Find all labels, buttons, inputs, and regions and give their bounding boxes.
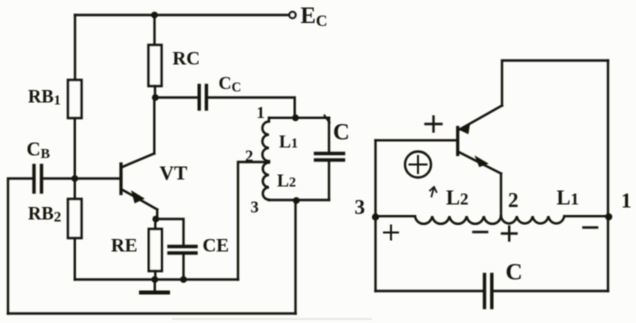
svg-text:L2: L2 bbox=[446, 186, 469, 210]
wire emitter node to CE top bbox=[156, 219, 184, 246]
source circled plus bbox=[405, 152, 431, 178]
svg-text:C: C bbox=[333, 120, 350, 145]
label RE bbox=[111, 236, 137, 257]
resistor RE bbox=[149, 229, 162, 271]
capacitor CE bbox=[169, 247, 196, 254]
wire emitter vertical bbox=[156, 210, 158, 220]
label 2 (right circuit) bbox=[508, 188, 519, 212]
resistor RB1 bbox=[68, 80, 82, 118]
label C (tank) tick mark bbox=[325, 116, 330, 123]
wire tank top bbox=[269, 117, 329, 119]
label EC bbox=[301, 3, 328, 30]
wire tank bottom bbox=[269, 199, 329, 201]
label RC bbox=[173, 49, 200, 70]
label 2 (tank mid tap) bbox=[245, 147, 253, 166]
wire top rail bbox=[75, 14, 290, 16]
svg-text:RE: RE bbox=[111, 236, 137, 257]
capacitor C (tank) bbox=[316, 118, 344, 200]
label + (below tap 2) bbox=[502, 227, 517, 241]
resistor RB2 bbox=[68, 199, 82, 238]
wire left side vertical (node 3) bbox=[374, 140, 376, 291]
inductor L2 (right circuit) bbox=[415, 216, 501, 224]
node 1 dot bbox=[605, 213, 612, 220]
node CE bottom junction bbox=[180, 276, 187, 283]
wire tap2 to ground rail corner bbox=[238, 162, 266, 280]
svg-text:2: 2 bbox=[508, 188, 519, 212]
wire collector node to CC bbox=[155, 96, 199, 98]
label L2 (right circuit) bbox=[446, 186, 469, 210]
wire CE bottom stub bbox=[182, 253, 184, 280]
svg-text:L1: L1 bbox=[557, 186, 580, 210]
node tank top junction bbox=[292, 114, 299, 121]
label VT bbox=[160, 163, 188, 185]
label C (tank) bbox=[333, 120, 350, 145]
node RE bottom junction bbox=[151, 276, 158, 283]
capacitor CB bbox=[34, 166, 42, 193]
label RB1 bbox=[28, 88, 61, 109]
wire base lead (right circuit) bbox=[376, 139, 457, 141]
node 3 dot bbox=[372, 213, 379, 220]
transistor (equivalent circuit) bbox=[458, 106, 502, 174]
svg-text:3: 3 bbox=[251, 198, 259, 217]
scan smudge artifact bbox=[172, 318, 372, 320]
wire CB left to outer loop bbox=[8, 179, 34, 314]
label + (base polarity) bbox=[426, 117, 442, 132]
svg-text:1: 1 bbox=[257, 103, 265, 122]
wire RC bottom stub bbox=[154, 86, 156, 97]
svg-text:RB1: RB1 bbox=[28, 88, 61, 109]
wire emitter node to RE bbox=[154, 219, 156, 229]
label 1 (right circuit) bbox=[621, 189, 632, 213]
wire outer bottom loop bbox=[8, 312, 296, 315]
svg-text:CC: CC bbox=[219, 73, 242, 95]
svg-text:3: 3 bbox=[355, 195, 366, 219]
wire tank bottom to outer loop bbox=[294, 200, 296, 314]
label 3 (tank bottom tap) bbox=[251, 198, 259, 217]
wire L1 to node 1 bbox=[564, 215, 608, 217]
node junction top (RC tap) bbox=[151, 12, 158, 19]
svg-text:C: C bbox=[506, 260, 523, 286]
label RB2 bbox=[28, 205, 61, 226]
wire RE bottom stub bbox=[154, 271, 156, 280]
label - (below L1 right) bbox=[584, 226, 598, 229]
label + (below node 3) bbox=[384, 226, 398, 240]
label L1 (right circuit) bbox=[557, 186, 580, 210]
wire RB2 bottom to ground rail bbox=[74, 238, 76, 280]
capacitor CC bbox=[199, 86, 206, 110]
capacitor C (right circuit) bbox=[485, 275, 492, 308]
terminal EC open circle bbox=[289, 12, 295, 18]
label CB bbox=[27, 140, 50, 163]
wire collector to top loop bbox=[502, 61, 608, 106]
label - (below L2) bbox=[474, 231, 488, 234]
wire RB1 bottom to base node bbox=[74, 118, 76, 179]
wire right side vertical bbox=[607, 61, 609, 292]
svg-text:CE: CE bbox=[203, 236, 229, 257]
wire CB right to base node bbox=[42, 177, 75, 179]
svg-text:VT: VT bbox=[160, 163, 188, 185]
svg-text:L1: L1 bbox=[279, 132, 298, 152]
label L1 (tank) bbox=[279, 132, 298, 152]
wire bottom loop left bbox=[376, 290, 485, 292]
wire emitter ground rail bbox=[75, 278, 238, 280]
svg-text:RC: RC bbox=[173, 49, 200, 70]
svg-text:EC: EC bbox=[301, 3, 328, 30]
label C (right circuit) bbox=[506, 260, 523, 286]
svg-text:L2: L2 bbox=[277, 171, 296, 191]
wire bottom loop right bbox=[492, 290, 608, 292]
label L2 (tank) bbox=[277, 171, 296, 191]
label CE bbox=[203, 236, 229, 257]
svg-text:RB2: RB2 bbox=[28, 205, 61, 226]
node emitter junction bbox=[152, 216, 159, 223]
label CC bbox=[219, 73, 242, 95]
wire node3 to L2 bbox=[376, 215, 416, 217]
node base junction bbox=[71, 175, 78, 182]
wire base node to RB2 bbox=[74, 179, 76, 200]
wire CC to tank top bbox=[206, 98, 294, 118]
transistor VT bbox=[121, 154, 157, 210]
wire base node to transistor base bbox=[75, 177, 120, 179]
ground bbox=[141, 280, 168, 293]
node tank bottom junction bbox=[293, 197, 300, 204]
inductor L2 (tank lower) bbox=[263, 163, 269, 201]
svg-text:CB: CB bbox=[27, 140, 50, 163]
inductor L1 (tank upper) bbox=[262, 118, 269, 161]
inductor L1 (right circuit) bbox=[501, 216, 564, 223]
wire left RB1 branch vertical bbox=[74, 15, 76, 80]
wire emitter to tap 2 bbox=[500, 174, 502, 217]
wire RC top stub bbox=[153, 15, 155, 45]
label 1 (tank top tap) bbox=[257, 103, 265, 122]
svg-text:1: 1 bbox=[621, 189, 632, 213]
current arrow mark bbox=[430, 187, 437, 197]
resistor RC bbox=[149, 45, 162, 86]
node collector junction bbox=[152, 94, 159, 101]
wire collector vertical bbox=[153, 98, 155, 154]
label 3 (right circuit) bbox=[355, 195, 366, 219]
